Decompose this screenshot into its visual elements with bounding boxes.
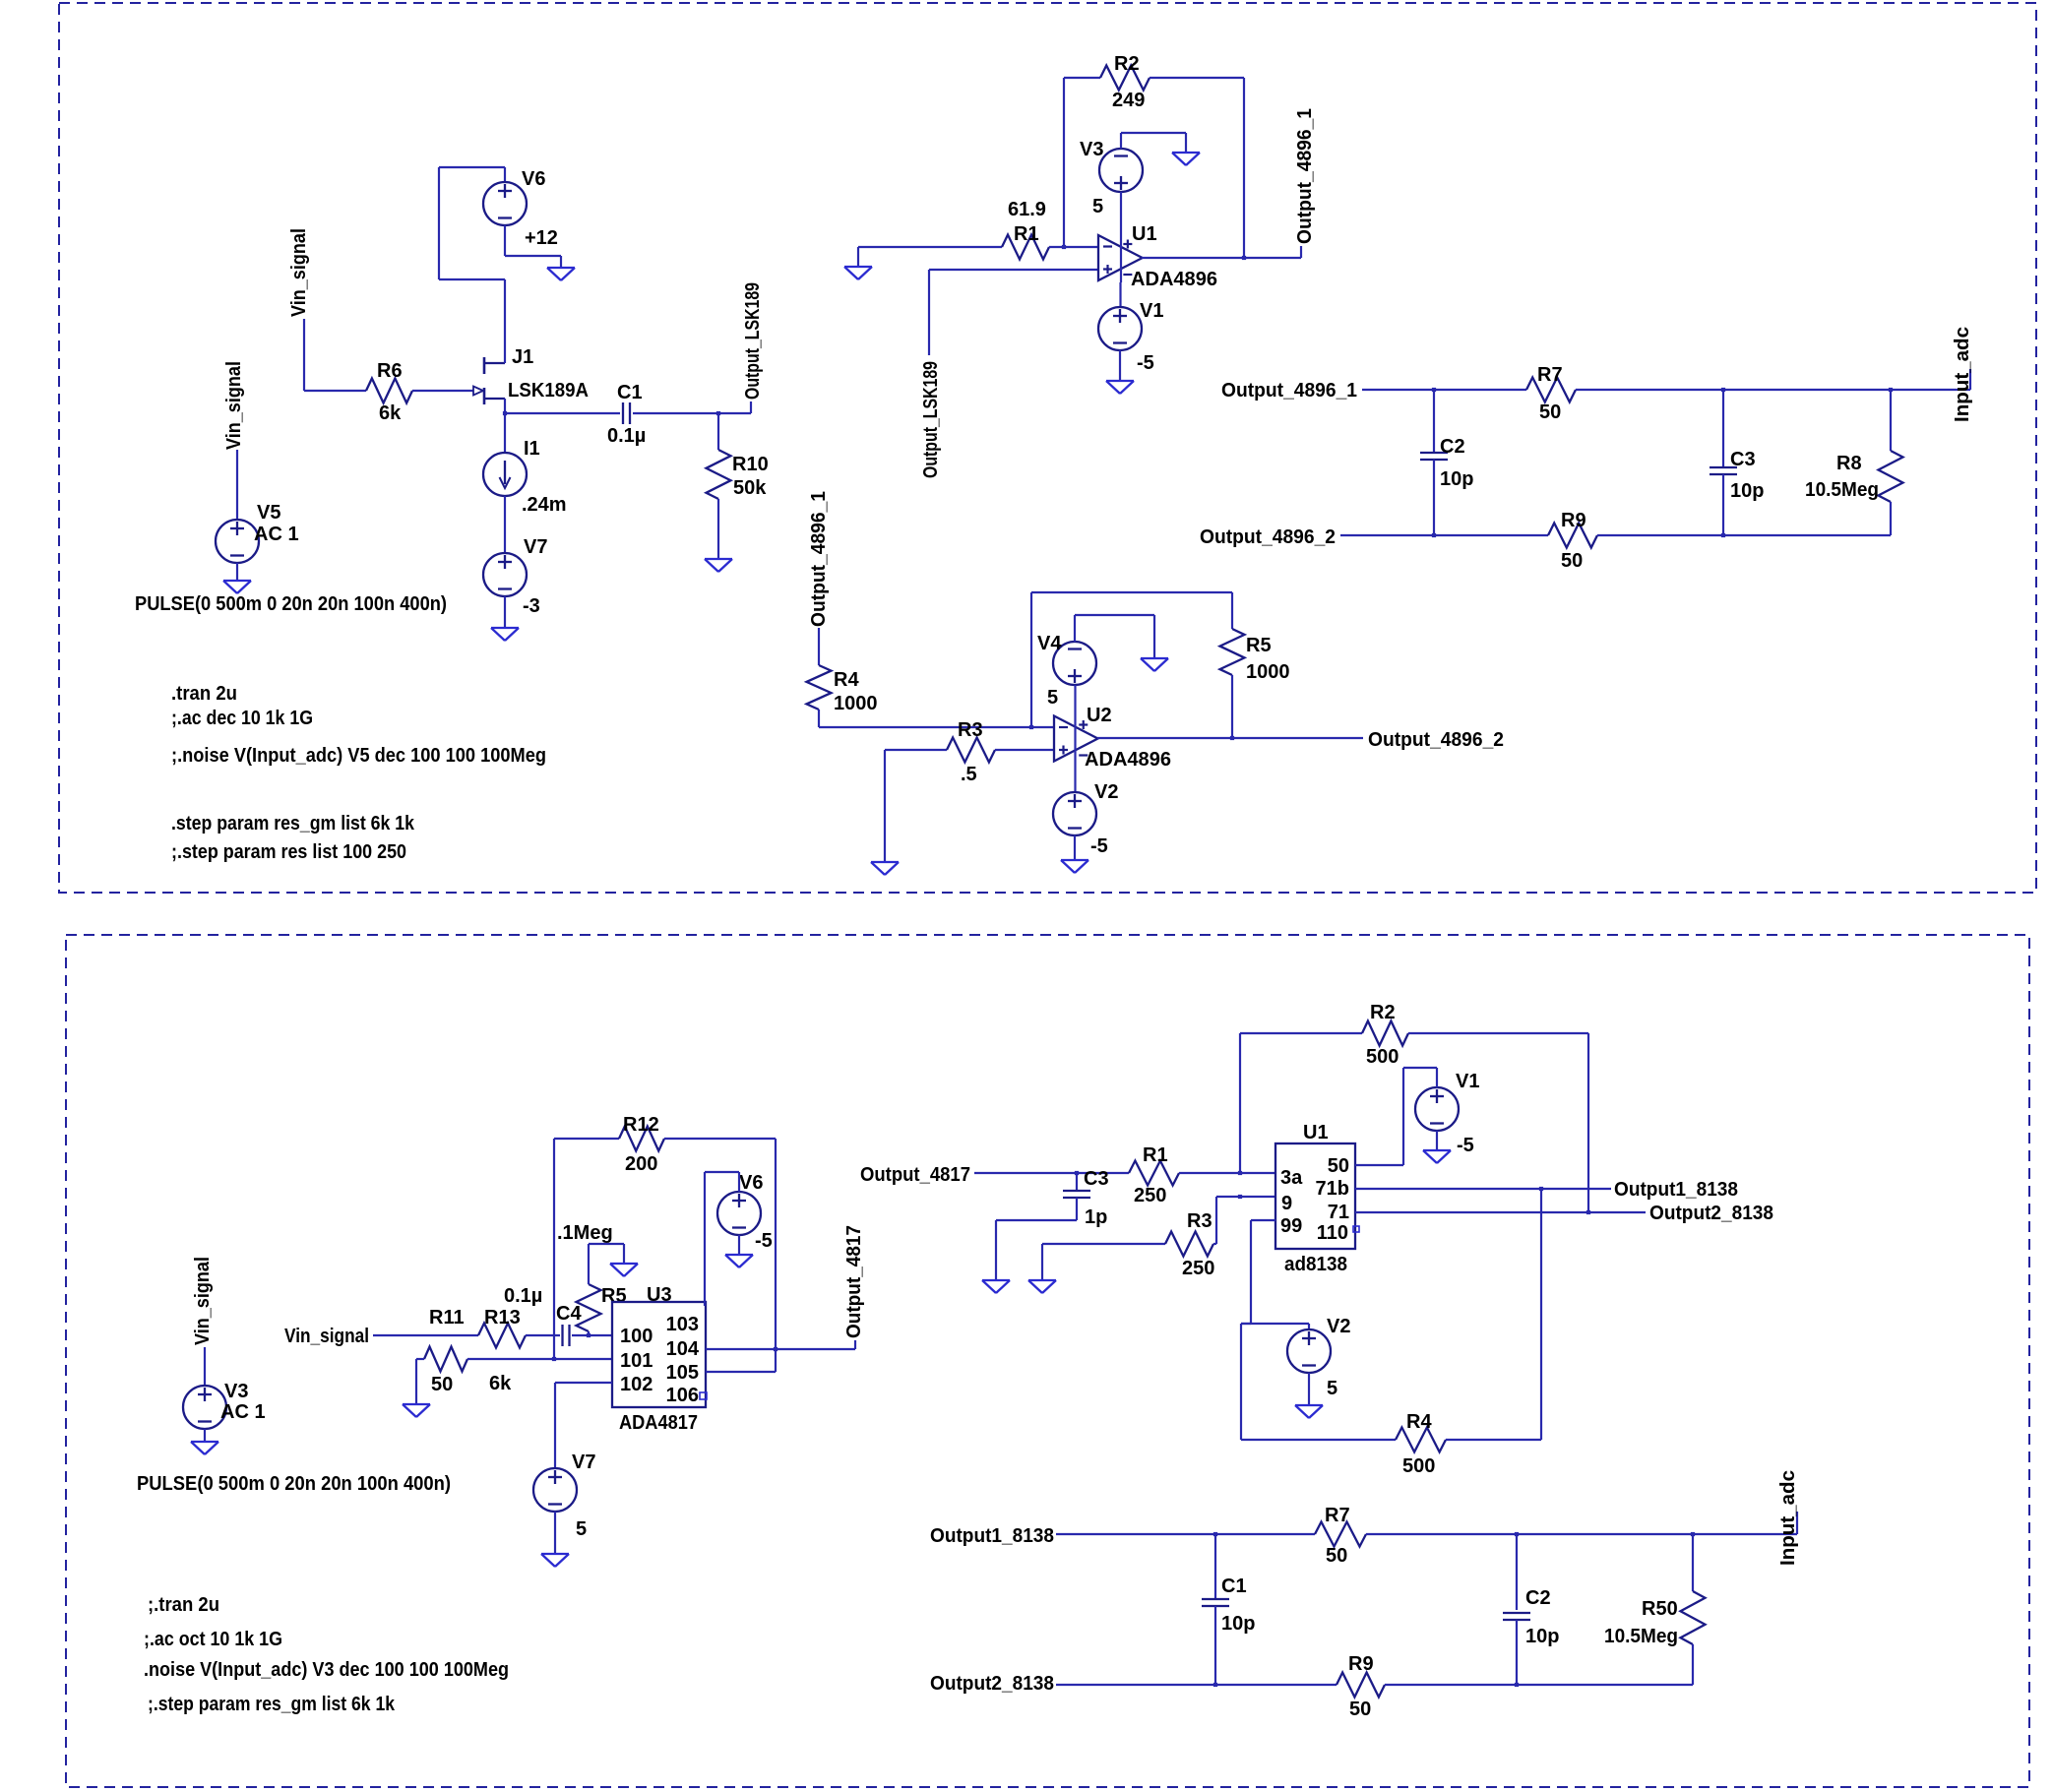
voltage source V5 (216, 520, 259, 563)
wire C4 to U3 pin100 (572, 1334, 612, 1336)
svg-text:.noise V(Input_adc) V3 dec 100: .noise V(Input_adc) V3 dec 100 100 100Me… (144, 1659, 509, 1681)
wire brow1 a (1056, 1533, 1315, 1535)
wire V6 minus down (504, 225, 506, 256)
value -5 (V1) (1137, 352, 1154, 374)
svg-text:Vin_signal: Vin_signal (288, 228, 310, 317)
wire filter row2 a (1340, 534, 1548, 536)
svg-text:.step param res_gm list 6k 1k: .step param res_gm list 6k 1k (171, 813, 415, 834)
resistor R10 (707, 450, 731, 499)
wire R4b left lead (1241, 1439, 1396, 1441)
wire Vin to R13 (373, 1334, 478, 1336)
wire C3 upper (1722, 390, 1724, 467)
svg-text:200: 200 (625, 1153, 657, 1175)
resistor R11 (424, 1347, 467, 1372)
value 61.9 (1008, 199, 1046, 220)
svg-text:U1: U1 (1132, 223, 1157, 245)
svg-text:106: 106 (666, 1385, 699, 1406)
label V5 (257, 502, 280, 524)
label V7 (bottom) (572, 1452, 595, 1473)
open pin 110 (1353, 1226, 1359, 1232)
junction C1b bottom (1213, 1683, 1217, 1687)
net label Output_4896_2 (U2 out) (1368, 729, 1504, 751)
wire V2b horiz (1241, 1323, 1309, 1325)
svg-text:J1: J1 (512, 346, 533, 368)
svg-text:Output_4896_2: Output_4896_2 (1368, 729, 1504, 751)
wire R4 to U2 inv (819, 726, 1054, 728)
wire R3 gnd vertical (884, 750, 886, 862)
wire R4 bottom (818, 710, 820, 727)
junction R4b 9 (1238, 1195, 1242, 1199)
wire R11 left down (415, 1359, 417, 1404)
wire R3b up (1215, 1197, 1217, 1244)
directive ;.tran 2u (bottom) (148, 1594, 219, 1616)
directive ;.noise (171, 745, 546, 767)
label V2 (1094, 781, 1118, 803)
pin 103 (666, 1314, 699, 1335)
wire V3b top (204, 1347, 206, 1386)
capacitor C4 (563, 1325, 570, 1346)
wire C3b upper (1076, 1173, 1078, 1191)
wire V6 top horizontal (439, 166, 505, 168)
svg-text:1000: 1000 (834, 693, 878, 714)
wire inv gnd stub (857, 247, 859, 267)
wire V6 left vertical (438, 167, 440, 279)
voltage source V1 (bottom) (1415, 1087, 1459, 1131)
wire R1 to U1 (1049, 246, 1098, 248)
svg-text:R9: R9 (1561, 510, 1586, 531)
resistor R8 (1879, 451, 1903, 502)
svg-text:PULSE(0 500m 0 20n 20n 100n 40: PULSE(0 500m 0 20n 20n 100n 400n) (137, 1473, 451, 1495)
ground V6 (547, 268, 575, 280)
label R2 (1114, 53, 1140, 75)
label R4 (top box) (834, 669, 859, 691)
wire V6 to ground horiz (505, 255, 561, 257)
svg-text:U3: U3 (647, 1284, 672, 1306)
svg-text:10.5Meg: 10.5Meg (1805, 479, 1879, 501)
top schematic frame (59, 3, 2036, 893)
svg-text:C3: C3 (1730, 449, 1756, 470)
value .1Meg (R5b) (557, 1222, 613, 1244)
value 10p (C1b) (1221, 1613, 1255, 1635)
svg-text:104: 104 (666, 1338, 700, 1360)
net label Output1_8138 (row) (1614, 1179, 1738, 1201)
voltage source V6 (bottom) (717, 1192, 761, 1235)
wire pin99 down (1250, 1220, 1252, 1324)
wire pin50 (1355, 1164, 1403, 1166)
value 1p (1085, 1206, 1107, 1228)
wire U2 fb up (1030, 592, 1032, 727)
resistor R5 (top box) (1220, 629, 1245, 675)
svg-text:U2: U2 (1087, 705, 1112, 726)
value 50 (R7) (1539, 402, 1561, 423)
svg-text:Input_adc: Input_adc (1952, 327, 1973, 422)
wire R11 left lead (416, 1358, 424, 1360)
wire pin105 (706, 1371, 776, 1373)
wire Vin vertical (303, 319, 305, 391)
svg-text:500: 500 (1366, 1046, 1399, 1068)
ground V2b (1295, 1405, 1323, 1418)
label U2 (1087, 705, 1112, 726)
svg-text:101: 101 (620, 1350, 653, 1372)
junction C3 top (1721, 388, 1725, 392)
svg-text:Output1_8138: Output1_8138 (1614, 1179, 1738, 1201)
wire U2 V- to V2 (1074, 764, 1076, 792)
junction C2 top (1432, 388, 1436, 392)
wire R2b right lead (1408, 1032, 1588, 1034)
wire to R2 (1064, 77, 1100, 79)
svg-text:Output_4896_1: Output_4896_1 (1221, 380, 1357, 402)
wire brow2 a (1056, 1684, 1337, 1686)
label V6 (522, 168, 545, 190)
svg-text:102: 102 (620, 1374, 653, 1395)
voltage source V7 (483, 553, 527, 596)
svg-text:-5: -5 (755, 1230, 773, 1252)
label R11 (429, 1307, 465, 1329)
svg-text:-5: -5 (1090, 835, 1108, 857)
value ad8138 (1284, 1254, 1347, 1275)
ground V6b (725, 1255, 753, 1267)
svg-text:C1: C1 (1221, 1576, 1247, 1597)
net label Output_4817 (ad8138 in) (860, 1164, 970, 1186)
label V7 (524, 536, 547, 558)
wire V6 ground stub (560, 256, 562, 268)
junction C2b bottom (1515, 1683, 1519, 1687)
label V3 (bottom) (224, 1381, 248, 1402)
net label Output_4896_1 (filter) (1221, 380, 1357, 402)
wire V7b to gnd (554, 1512, 556, 1554)
net label Output_LSK189 (742, 282, 764, 400)
wire R10 top (717, 413, 719, 450)
svg-text:.24m: .24m (522, 494, 567, 516)
svg-text:R4: R4 (834, 669, 859, 691)
junction R1 feedback node (1062, 245, 1066, 249)
wire C3 lower (1722, 474, 1724, 535)
value 50 (R9) (1561, 550, 1583, 572)
svg-text:C4: C4 (556, 1303, 582, 1325)
pin 106 (666, 1385, 699, 1406)
value 6k (R13) (489, 1373, 512, 1394)
wire V6 bottom horizontal (439, 278, 505, 280)
svg-text:.tran 2u: .tran 2u (171, 683, 237, 705)
capacitor C2 (1420, 453, 1448, 460)
wire R12 right vertical (775, 1139, 777, 1372)
wire U1 V- to V1 (1119, 282, 1121, 307)
svg-text:R3: R3 (958, 719, 983, 741)
wire R50 lower (1692, 1644, 1694, 1685)
net label Output2_8138 (filter) (930, 1673, 1054, 1695)
svg-text:U1: U1 (1303, 1122, 1329, 1143)
wire V3b gnd (204, 1429, 206, 1442)
svg-text:249: 249 (1112, 90, 1145, 111)
ground U1 input (844, 267, 872, 279)
wire J1 source down (504, 399, 506, 453)
junction R2b 3a (1238, 1171, 1242, 1175)
svg-text:V6: V6 (739, 1172, 763, 1194)
wire R5b bottom lead (588, 1331, 590, 1335)
wire R12 right lead (664, 1138, 776, 1140)
capacitor C2 (bottom) (1503, 1613, 1530, 1620)
wire C2 lower (1433, 460, 1435, 535)
svg-text:6k: 6k (489, 1373, 512, 1394)
wire R2b vert (1239, 1033, 1241, 1173)
label C2 (bottom) (1525, 1587, 1551, 1609)
wire Input_adc stub (1969, 369, 1971, 390)
ground V3 (bottom) (191, 1442, 218, 1454)
pin 50 (1328, 1155, 1349, 1177)
net label Output_4817 (U3 out) (843, 1225, 865, 1338)
svg-text:PULSE(0 500m 0 20n 20n 100n 40: PULSE(0 500m 0 20n 20n 100n 400n) (135, 593, 447, 615)
wire C3b lower (1076, 1198, 1078, 1220)
svg-text:50: 50 (1349, 1699, 1371, 1720)
resistor R7 (bottom) (1315, 1522, 1366, 1547)
wire pin102 (555, 1382, 612, 1384)
wire R10 bottom (717, 499, 719, 559)
wire V1b down (1402, 1068, 1404, 1165)
value 0.1u (607, 425, 646, 447)
net label Input_adc (bottom) (1777, 1470, 1799, 1566)
value 250 (R3b) (1182, 1258, 1214, 1279)
resistor R13 (478, 1324, 526, 1348)
svg-text:V7: V7 (572, 1452, 595, 1473)
svg-text:0.1µ: 0.1µ (504, 1285, 542, 1307)
svg-text:ad8138: ad8138 (1284, 1254, 1347, 1275)
svg-text:-3: -3 (523, 595, 540, 617)
svg-text:ADA4896: ADA4896 (1131, 269, 1217, 290)
label C4 (556, 1303, 582, 1325)
wire V1b top (1436, 1068, 1438, 1087)
svg-text:.1Meg: .1Meg (557, 1222, 613, 1244)
svg-text:Output2_8138: Output2_8138 (930, 1673, 1054, 1695)
value 10p (C2) (1440, 468, 1473, 490)
label C3 (bottom) (1084, 1168, 1109, 1190)
value 5 (V2b) (1327, 1378, 1337, 1399)
junction C2 bottom (1432, 533, 1436, 537)
wire V5 top (236, 450, 238, 520)
wire V4 gnd stub (1153, 615, 1155, 658)
svg-text:V5: V5 (257, 502, 280, 524)
value 50 (R11) (431, 1374, 453, 1395)
resistor R5 (.1Meg) (577, 1284, 601, 1331)
net label Input_adc (top) (1952, 327, 1973, 422)
directive ;.ac dec (171, 708, 313, 729)
svg-text:1p: 1p (1085, 1206, 1107, 1228)
label I1 (524, 438, 540, 460)
label R10 (732, 454, 769, 475)
junction R8 top (1889, 388, 1893, 392)
value 0.1u (C4) (504, 1285, 542, 1307)
voltage source V3 (bottom) (183, 1386, 226, 1429)
ground V1b (1423, 1150, 1451, 1163)
svg-text:50: 50 (1326, 1545, 1347, 1567)
wire V1b horiz (1403, 1067, 1437, 1069)
capacitor C3 (1710, 467, 1737, 474)
svg-text:250: 250 (1182, 1258, 1214, 1279)
pin 9 (1281, 1193, 1292, 1214)
label R5 (top box) (1246, 635, 1272, 656)
wire pin99 jog (1241, 1323, 1251, 1325)
junction R5b bottom (587, 1333, 591, 1337)
label R9 (1561, 510, 1586, 531)
wire V6b top pin (738, 1172, 740, 1192)
value 500 (R4b) (1402, 1455, 1435, 1477)
wire R12 left vertical (553, 1139, 555, 1359)
ground V7 (491, 628, 519, 641)
wire V1 to ground (1119, 350, 1121, 381)
open pin 106 (700, 1392, 707, 1399)
wire R5 bottom lead (1231, 675, 1233, 738)
svg-text:C3: C3 (1084, 1168, 1109, 1190)
svg-text:Output_4896_1: Output_4896_1 (808, 491, 830, 627)
label V4 (1037, 633, 1062, 654)
junction U1 output fb (1242, 256, 1246, 260)
svg-text:R10: R10 (732, 454, 769, 475)
net label Output_4896_2 (filter) (1200, 526, 1336, 548)
value 50k (733, 477, 767, 499)
svg-text:71b: 71b (1316, 1178, 1349, 1200)
wire R4 top lead (818, 628, 820, 665)
ground V3 (1172, 153, 1200, 165)
wire C3b gnd vert (995, 1220, 997, 1280)
label V1 (1140, 300, 1163, 322)
svg-text:Output_4896_1: Output_4896_1 (1294, 108, 1316, 244)
pin 3a (1280, 1167, 1303, 1189)
value 1000 (R4) (834, 693, 878, 714)
net label Vin_signal (V5) (223, 361, 245, 450)
directive .noise (bottom) (144, 1659, 509, 1681)
wire Output_4896_1 stub (1300, 246, 1302, 258)
svg-text:R5: R5 (601, 1285, 627, 1307)
resistor R1 (bottom) (1129, 1161, 1179, 1186)
resistor R50 (1681, 1591, 1706, 1644)
svg-text:;.noise V(Input_adc) V5 dec 10: ;.noise V(Input_adc) V5 dec 100 100 100M… (171, 745, 546, 767)
wire brow1 b (1366, 1533, 1797, 1535)
resistor R1 (1002, 235, 1049, 260)
net label Output_4896_1 (R4 top) (808, 491, 830, 627)
capacitor C3 (bottom) (1063, 1191, 1090, 1198)
value -5 (V6b) (755, 1230, 773, 1252)
wire C1b upper (1214, 1534, 1216, 1599)
op-amp U1 ad8138 box (1275, 1143, 1355, 1249)
wire V5 to ground (236, 563, 238, 581)
svg-text:R4: R4 (1406, 1411, 1432, 1433)
svg-text:Output_LSK189: Output_LSK189 (742, 282, 764, 400)
value 249 (1112, 90, 1145, 111)
wire R5b top lead (588, 1267, 590, 1284)
svg-text:V1: V1 (1140, 300, 1163, 322)
directive ;.step res (171, 841, 406, 863)
value -3 (523, 595, 540, 617)
svg-text:Output1_8138: Output1_8138 (930, 1525, 1054, 1547)
wire V4 gnd horiz (1075, 614, 1154, 616)
value 5 (V7b) (576, 1518, 587, 1540)
wire pin102 down (554, 1383, 556, 1468)
svg-text:V2: V2 (1094, 781, 1118, 803)
svg-text:50: 50 (1328, 1155, 1349, 1177)
value 10p (C2b) (1525, 1626, 1559, 1647)
label C1 (617, 382, 643, 403)
svg-text:+12: +12 (525, 227, 558, 249)
value 200 (R12) (625, 1153, 657, 1175)
wire R1b to U1b (1179, 1172, 1275, 1174)
ground R3b (1028, 1280, 1056, 1293)
svg-text:I1: I1 (524, 438, 540, 460)
wire V6b horiz (705, 1171, 739, 1173)
junction R4b out (1539, 1187, 1543, 1191)
svg-text:R7: R7 (1537, 364, 1563, 386)
voltage source V1 (1098, 307, 1142, 350)
wire source node to C1 (505, 412, 620, 414)
wire V7 to ground (504, 596, 506, 628)
label R3 (bottom) (1187, 1210, 1213, 1232)
wire Output_LSK189 label wire (928, 270, 930, 355)
wire Output_4817 stub (854, 1340, 856, 1349)
svg-text:R50: R50 (1642, 1598, 1678, 1620)
wire R8 lower (1890, 502, 1892, 535)
label R6 (377, 360, 403, 382)
wire V1b bottom (1436, 1131, 1438, 1150)
label R7 (bottom) (1325, 1505, 1350, 1526)
directive .step res_gm (171, 813, 415, 834)
pin 101 (620, 1350, 653, 1372)
svg-text:Output_4817: Output_4817 (843, 1225, 865, 1338)
svg-text:R1: R1 (1143, 1144, 1168, 1166)
wire U1 noninv input (929, 269, 1098, 271)
directive .tran 2u (171, 683, 237, 705)
svg-text:10p: 10p (1440, 468, 1473, 490)
value ADA4896 (U1) (1131, 269, 1217, 290)
svg-text:R2: R2 (1114, 53, 1140, 75)
net label Vin_signal (wire) (284, 1326, 369, 1347)
svg-text:1000: 1000 (1246, 661, 1290, 683)
wire R8 upper (1890, 390, 1892, 451)
net label Output_4896_1 (U1 out) (1294, 108, 1316, 244)
wire brow2 b (1385, 1684, 1693, 1686)
wire V6 top pin (504, 167, 506, 182)
wire J1 drain up (504, 279, 506, 363)
wire R11 to U3 pin101 (467, 1358, 612, 1360)
svg-text:V2: V2 (1327, 1316, 1350, 1337)
svg-text:50k: 50k (733, 477, 767, 499)
wire R13 to C4 (526, 1334, 560, 1336)
svg-text:9: 9 (1281, 1193, 1292, 1214)
label R7 (1537, 364, 1563, 386)
svg-text:V3: V3 (1080, 139, 1103, 160)
value 5 (V4) (1047, 687, 1058, 709)
value 250 (R1b) (1134, 1185, 1166, 1206)
svg-text:;.step param res list 100 250: ;.step param res list 100 250 (171, 841, 406, 863)
wire Input_adc stub (bottom) (1796, 1512, 1798, 1534)
ground V7b (541, 1554, 569, 1567)
wire R6 to J1 gate (412, 390, 475, 392)
svg-text:Output_LSK189: Output_LSK189 (920, 361, 942, 478)
wire filter row1 a (1362, 389, 1526, 391)
resistor R9 (bottom) (1337, 1673, 1385, 1698)
label J1 (512, 346, 533, 368)
resistor R9 (1548, 524, 1597, 548)
pin 110 (1317, 1222, 1348, 1244)
wire V2b top (1308, 1324, 1310, 1329)
svg-text:6k: 6k (379, 402, 402, 424)
svg-text:5: 5 (1092, 196, 1103, 217)
svg-text:99: 99 (1280, 1215, 1302, 1237)
ground R5b (610, 1264, 638, 1276)
wire in to R1b (974, 1172, 1129, 1174)
svg-text:AC 1: AC 1 (220, 1401, 266, 1423)
wire V2b bottom (1308, 1373, 1310, 1405)
op-amp U1 (1098, 235, 1143, 280)
svg-text:500: 500 (1402, 1455, 1435, 1477)
svg-text:Vin_signal: Vin_signal (192, 1257, 214, 1345)
